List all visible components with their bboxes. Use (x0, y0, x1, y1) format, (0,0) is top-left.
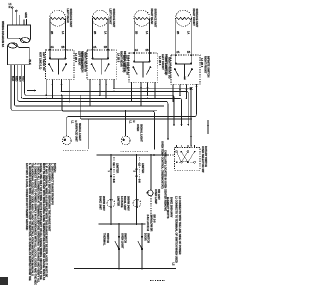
broil element E2 (133, 199, 141, 207)
svg-text:L1 CONNECTS TO TERMINAL OF SWI: L1 CONNECTS TO TERMINAL OF SWITCH WHEN U… (175, 196, 178, 263)
svg-text:OVEN LIGHT: OVEN LIGHT (120, 233, 123, 249)
svg-text:DOOR: DOOR (143, 233, 146, 241)
branch1 terminals (110, 168, 112, 170)
selector terminal stubs (176, 145, 178, 148)
svg-text:LEFT REAR: LEFT REAR (77, 51, 80, 65)
ground arrow (27, 90, 36, 92)
S3 output wires (131, 82, 133, 101)
svg-text:RIGHT REAR: RIGHT REAR (120, 51, 123, 67)
bus Y92 wire (62, 91, 189, 126)
svg-text:SW 120V: SW 120V (157, 189, 160, 200)
branch2 terminals (135, 168, 137, 170)
bus L4 wire (14, 65, 164, 106)
selector terminal bottom 4 (194, 161, 196, 163)
bus N wire (18, 65, 168, 140)
svg-text:GRN: GRN (24, 12, 27, 18)
infinite switch S1 (46, 50, 75, 79)
selector terminal bottom 2 (180, 161, 182, 163)
bus L2 wire (21, 65, 181, 126)
svg-text:SWITCH: SWITCH (106, 233, 109, 243)
svg-text:1B: 1B (104, 46, 107, 49)
oven selector switch (175, 148, 200, 171)
svg-text:RIGHT FRONT: RIGHT FRONT (203, 56, 206, 74)
svg-text:HOT LINE (L1): HOT LINE (L1) (164, 57, 167, 74)
bus Y88 wire (114, 88, 191, 146)
svg-text:RED: RED (21, 76, 24, 82)
S2 output wires (89, 79, 91, 106)
svg-text:WIRING DIAGRAM 8A: WIRING DIAGRAM 8A (1, 21, 4, 47)
junction x-mark (190, 87, 193, 90)
bus junction dots (45, 98, 47, 100)
selector terminal top 4 (194, 151, 196, 153)
surface unit SU1 (50, 10, 66, 26)
svg-text:SURFACE UNIT: SURFACE UNIT (195, 9, 198, 28)
indicator lamp PL2 (121, 136, 130, 145)
svg-text:L2 CONNECTS WITH THE LINE SIDE: L2 CONNECTS WITH THE LINE SIDE OF POWER (178, 196, 181, 255)
svg-text:RIGHT REAR SU: RIGHT REAR SU (84, 52, 87, 72)
svg-text:1A: 1A (145, 31, 148, 34)
svg-text:LEFT FRONT SU: LEFT FRONT SU (126, 55, 129, 75)
svg-text:BLK: BLK (11, 76, 14, 81)
svg-text:1A: 1A (187, 31, 190, 34)
power cord top leads (12, 8, 26, 25)
selector contact arms (177, 152, 195, 163)
SU3 terminal dots (134, 50, 149, 53)
svg-text:1A: 1A (61, 31, 64, 34)
svg-text:BR 2-8: BR 2-8 (153, 215, 156, 224)
svg-text:1A 2B 3: 1A 2B 3 (158, 56, 161, 66)
right edge arrow (207, 120, 209, 134)
bus L1 wire (25, 65, 174, 126)
svg-text:2-8A LOCK HI: 2-8A LOCK HI (146, 215, 149, 232)
svg-text:SURFACE UNIT: SURFACE UNIT (75, 123, 78, 142)
svg-text:OVEN: OVEN (136, 124, 139, 131)
oven element branch 1 wire (110, 155, 112, 224)
infinite switch S2 (87, 50, 116, 79)
lamp PL2 border (120, 151, 148, 153)
svg-text:ROTARY SWITCH: ROTARY SWITCH (204, 146, 207, 167)
svg-text:2600W 240V: 2600W 240V (102, 196, 105, 211)
svg-text:2B: 2B (134, 31, 137, 34)
svg-text:RED: RED (15, 76, 18, 82)
bus L5 wire (11, 65, 157, 111)
svg-text:2A: 2A (93, 46, 96, 49)
svg-text:LIMITER: LIMITER (116, 163, 119, 173)
indicator lamp PL1 (62, 136, 71, 145)
oven lamp (150, 155, 152, 190)
corner registration mark (0, 277, 8, 285)
S1 contacts (50, 50, 65, 59)
surface unit SU4 (176, 10, 192, 26)
svg-text:3600W 240V: 3600W 240V (126, 196, 129, 211)
svg-text:1B: 1B (187, 51, 190, 54)
selector terminal top 3 (187, 151, 189, 153)
lamp PL1 border (87, 119, 89, 149)
svg-text:RIGHT REAR: RIGHT REAR (150, 9, 153, 25)
svg-text:LEFT REAR: LEFT REAR (66, 9, 69, 23)
infinite switch S3 (129, 53, 158, 82)
svg-text:240V LOW BR: 240V LOW BR (149, 215, 152, 232)
oven switch branch B (141, 224, 143, 269)
svg-text:RIGHT FRONT SU: RIGHT FRONT SU (168, 57, 171, 79)
oven element branch 2 wire (136, 155, 138, 224)
svg-text:LIMITER: LIMITER (116, 196, 119, 206)
selector terminal bottom 3 (187, 161, 189, 163)
SU4 terminal dots (176, 50, 191, 56)
S4 output wires (172, 84, 174, 101)
svg-text:HOT LINE (L1): HOT LINE (L1) (39, 52, 42, 69)
svg-text:BAKE 2600-240V: BAKE 2600-240V (170, 197, 173, 218)
svg-text:1A 2B 3: 1A 2B 3 (74, 53, 77, 63)
surface unit SU3 (134, 10, 150, 26)
svg-text:SIGNAL LIGHT: SIGNAL LIGHT (140, 124, 143, 142)
svg-text:1A 2B 3: 1A 2B 3 (200, 58, 203, 68)
svg-text:2A: 2A (135, 49, 138, 52)
infinite switch S4 (171, 55, 200, 84)
selector heater squiggle (183, 161, 190, 162)
thermostat capillary A (113, 157, 115, 183)
svg-text:BAKE UNIT: BAKE UNIT (99, 196, 102, 210)
mid bus wire (96, 154, 167, 156)
svg-text:BLK: BLK (28, 60, 31, 65)
thermostat capillary B (138, 157, 140, 183)
svg-text:SWITCH: SWITCH (124, 233, 127, 243)
svg-text:BROIL UNIT: BROIL UNIT (123, 196, 126, 211)
S1 output wires (45, 79, 47, 95)
surface unit SU2 (92, 10, 108, 26)
svg-text:H: H (132, 121, 135, 123)
svg-text:SWITCH: SWITCH (147, 233, 150, 243)
SU2 terminal dots (92, 49, 94, 51)
svg-text:RIGHT FRONT: RIGHT FRONT (192, 9, 195, 27)
svg-text:SURFACE UNIT: SURFACE UNIT (153, 9, 156, 28)
svg-text:FACTORY. IF LOCAL CODES DO NOT: FACTORY. IF LOCAL CODES DO NOT PERMIT GR… (25, 163, 28, 230)
wire lamp2 feed (62, 95, 155, 149)
S4 contacts (176, 55, 191, 63)
svg-text:2B: 2B (93, 31, 96, 34)
legend dashes (150, 279, 165, 281)
svg-text:1B: 1B (61, 46, 64, 49)
svg-text:2A: 2A (51, 46, 54, 49)
svg-text:ELEMENT WATTS: ELEMENT WATTS (166, 197, 169, 219)
svg-text:LEFT REAR SU: LEFT REAR SU (42, 52, 45, 71)
selector terminal top 2 (180, 151, 182, 153)
svg-text:2B: 2B (50, 31, 53, 34)
S2 contacts (93, 50, 108, 59)
svg-text:1B: 1B (145, 49, 148, 52)
svg-text:2A: 2A (176, 51, 179, 54)
svg-text:OVEN LAMP: OVEN LAMP (154, 189, 157, 204)
svg-text:1A: 1A (103, 31, 106, 34)
svg-text:INFINITE SWITCH: INFINITE SWITCH (207, 56, 210, 77)
svg-text:HOT LINE (L1): HOT LINE (L1) (80, 52, 83, 69)
svg-text:LEFT FRONT: LEFT FRONT (109, 9, 112, 25)
bake element E1 (107, 199, 115, 207)
svg-text:THERMAL: THERMAL (103, 233, 106, 246)
svg-text:SIGNAL LIGHT: SIGNAL LIGHT (78, 123, 81, 141)
selector terminal bottom 1 (176, 161, 178, 163)
oven switch branch A (118, 224, 120, 269)
svg-text:N: N (9, 6, 11, 9)
svg-text:1A 2B 3: 1A 2B 3 (116, 53, 119, 63)
svg-text:2B: 2B (176, 31, 179, 34)
svg-text:LEFT FRONT: LEFT FRONT (161, 54, 164, 70)
svg-text:LIMITER: LIMITER (141, 163, 144, 173)
S3 contacts (134, 53, 149, 61)
svg-text:SURFACE UNIT: SURFACE UNIT (69, 9, 72, 28)
lower oven bus (74, 268, 176, 270)
svg-text:SURFACE UNIT: SURFACE UNIT (112, 9, 115, 28)
svg-text:WHT: WHT (18, 76, 21, 82)
svg-text:OVEN TEMP CONTROL (THERMOSTAT): OVEN TEMP CONTROL (THERMOSTAT) (160, 141, 163, 189)
svg-text:HOT LINE (L1): HOT LINE (L1) (122, 55, 125, 72)
selector terminal top 1 (176, 151, 178, 153)
svg-text:3-8 BAKE: 3-8 BAKE (120, 196, 123, 208)
svg-text:OVEN SELECTOR SW: OVEN SELECTOR SW (201, 146, 204, 173)
upper oven bus (98, 223, 145, 225)
wire feed B (80, 95, 191, 119)
wire lamp1 feed (67, 84, 197, 136)
power supply cord terminal block (7, 25, 30, 43)
SU1 terminal dots (49, 49, 51, 51)
